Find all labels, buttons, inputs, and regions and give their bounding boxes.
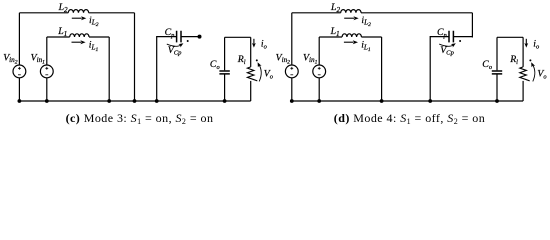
svg-text:iL2: iL2 — [361, 15, 371, 28]
wire — [108, 37, 110, 101]
voltage source Vin2 — [13, 65, 26, 78]
svg-text:Vo: Vo — [537, 69, 546, 81]
svg-text:iL1: iL1 — [89, 40, 99, 53]
inductor L1 — [70, 34, 89, 37]
wire — [250, 81, 252, 101]
svg-text:Co: Co — [482, 59, 492, 71]
svg-text:Cp: Cp — [165, 27, 175, 39]
inductor L1 — [342, 34, 361, 37]
junction — [223, 99, 227, 103]
capacitor CP — [177, 31, 181, 43]
wire — [319, 36, 342, 38]
wire — [318, 78, 320, 101]
wire — [496, 75, 498, 102]
wire — [250, 37, 252, 67]
caption (d) — [322, 111, 497, 126]
junction — [18, 99, 22, 103]
svg-text:Vin1: Vin1 — [303, 52, 318, 65]
junction — [317, 99, 321, 103]
svg-text:io: io — [261, 38, 267, 50]
wire — [181, 36, 200, 38]
svg-text:io: io — [533, 38, 539, 50]
svg-text:Co: Co — [210, 59, 220, 71]
capacitor CP — [449, 31, 453, 43]
svg-text:L2: L2 — [58, 2, 68, 14]
voltage arrow VCp — [167, 44, 182, 46]
wire — [522, 37, 524, 67]
wire — [471, 13, 473, 38]
wire — [361, 12, 472, 14]
junction — [290, 99, 294, 103]
wire — [292, 12, 341, 14]
inductor L2 — [341, 10, 361, 13]
wire — [18, 78, 20, 101]
resistor Rl — [247, 67, 257, 81]
svg-text:iL1: iL1 — [361, 40, 371, 53]
wire — [224, 37, 226, 70]
svg-text:L2: L2 — [330, 2, 340, 14]
wire — [496, 37, 498, 70]
svg-text:Cp: Cp — [437, 27, 447, 39]
junction — [45, 99, 49, 103]
wire — [89, 36, 109, 38]
wire — [430, 37, 449, 101]
svg-text:L1: L1 — [330, 26, 340, 38]
wire — [225, 36, 251, 38]
current arrow iL1 — [344, 41, 354, 43]
wire — [361, 36, 381, 38]
current arrow iL2 — [344, 17, 354, 19]
wire — [292, 100, 523, 102]
voltage source Vin2 — [285, 65, 298, 78]
capacitor Co — [219, 71, 229, 74]
svg-text:Vo: Vo — [264, 69, 273, 81]
voltage arrow Vo — [532, 64, 535, 82]
wire — [19, 12, 68, 14]
junction — [107, 99, 111, 103]
junction — [155, 99, 159, 103]
svg-text:Rl: Rl — [509, 54, 518, 66]
wire — [497, 36, 523, 38]
wire — [18, 13, 20, 65]
voltage arrow Vo — [259, 64, 262, 82]
current arrow iL2 — [72, 17, 82, 19]
svg-text:Vin1: Vin1 — [31, 52, 46, 65]
svg-text:Vin2: Vin2 — [3, 52, 18, 65]
current arrow io — [525, 39, 527, 45]
wire — [157, 37, 177, 101]
voltage source Vin1 — [40, 65, 53, 78]
resistor Rl — [520, 67, 530, 81]
wire — [46, 78, 48, 101]
wire — [291, 13, 293, 65]
current arrow iL1 — [72, 41, 82, 43]
wire — [47, 36, 70, 38]
wire — [89, 12, 135, 14]
wire — [291, 78, 293, 101]
svg-text:iL2: iL2 — [89, 15, 99, 28]
wire — [453, 36, 472, 38]
capacitor Co — [492, 71, 502, 74]
wire — [224, 75, 226, 102]
caption (c) — [52, 111, 227, 126]
wire — [134, 13, 136, 101]
current arrow io — [253, 39, 255, 45]
svg-text:L1: L1 — [57, 26, 67, 38]
node CP terminal — [198, 35, 202, 39]
junction — [380, 99, 384, 103]
inductor L2 — [68, 10, 88, 13]
wire — [46, 37, 48, 65]
voltage source Vin1 — [313, 65, 326, 78]
svg-text:Rl: Rl — [237, 54, 246, 66]
junction — [495, 99, 499, 103]
wire — [522, 81, 524, 101]
wire — [318, 37, 320, 65]
wire — [381, 37, 383, 101]
svg-text:Vin2: Vin2 — [276, 52, 291, 65]
voltage arrow VCp — [439, 44, 454, 46]
junction — [428, 99, 432, 103]
wire — [19, 100, 250, 102]
junction — [133, 99, 137, 103]
